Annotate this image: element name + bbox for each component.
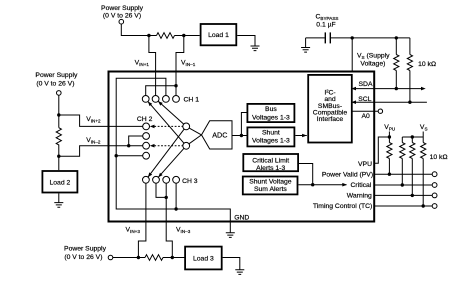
svg-text:Critical: Critical bbox=[351, 182, 372, 189]
svg-text:Voltages 1-3: Voltages 1-3 bbox=[252, 114, 290, 121]
svg-text:CH 3: CH 3 bbox=[182, 178, 198, 185]
svg-text:Voltage): Voltage) bbox=[360, 60, 385, 67]
svg-text:GND: GND bbox=[234, 214, 249, 221]
svg-text:A0: A0 bbox=[361, 113, 370, 120]
svg-text:Interface: Interface bbox=[317, 116, 344, 123]
svg-text:10 kΩ: 10 kΩ bbox=[418, 61, 436, 68]
svg-text:Voltages 1-3: Voltages 1-3 bbox=[252, 138, 290, 145]
svg-text:(0 V to 26 V): (0 V to 26 V) bbox=[36, 80, 74, 87]
svg-text:0.1 µF: 0.1 µF bbox=[316, 21, 335, 28]
svg-text:CH 2: CH 2 bbox=[137, 116, 153, 123]
svg-text:(0 V to 26 V): (0 V to 26 V) bbox=[103, 12, 141, 19]
svg-text:Power Valid (PV): Power Valid (PV) bbox=[322, 171, 373, 178]
svg-text:SDA: SDA bbox=[359, 81, 373, 88]
svg-text:CH 1: CH 1 bbox=[184, 96, 200, 103]
svg-text:Load 1: Load 1 bbox=[208, 32, 229, 39]
svg-text:Sum Alerts: Sum Alerts bbox=[254, 186, 287, 193]
svg-text:Power Supply: Power Supply bbox=[64, 245, 107, 252]
svg-text:Bus: Bus bbox=[265, 106, 277, 113]
svg-text:Power Supply: Power Supply bbox=[101, 5, 144, 12]
svg-text:Load 3: Load 3 bbox=[193, 256, 214, 263]
svg-text:SCL: SCL bbox=[358, 96, 371, 103]
svg-text:VPU: VPU bbox=[358, 161, 372, 168]
svg-text:(0 V to 26 V): (0 V to 26 V) bbox=[64, 254, 102, 261]
svg-text:Shunt: Shunt bbox=[262, 129, 280, 136]
svg-text:Load 2: Load 2 bbox=[50, 179, 71, 186]
svg-text:Warning: Warning bbox=[347, 193, 372, 200]
svg-text:Timing Control (TC): Timing Control (TC) bbox=[313, 203, 372, 210]
svg-text:10 kΩ: 10 kΩ bbox=[430, 154, 448, 161]
svg-text:ADC: ADC bbox=[212, 130, 227, 139]
svg-text:Critical Limit: Critical Limit bbox=[252, 158, 289, 165]
svg-text:Shunt Voltage: Shunt Voltage bbox=[249, 179, 292, 186]
svg-text:Alerts 1-3: Alerts 1-3 bbox=[256, 165, 285, 172]
svg-text:Power Supply: Power Supply bbox=[35, 72, 78, 79]
